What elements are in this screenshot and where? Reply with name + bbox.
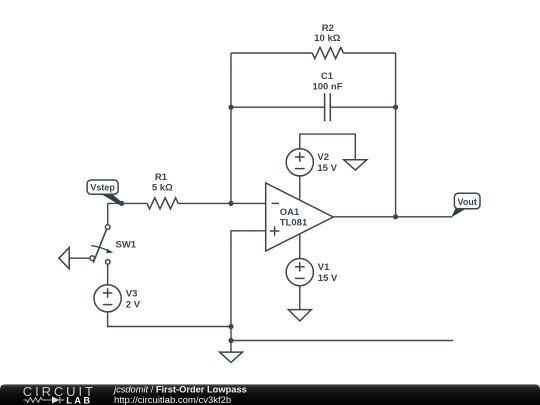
actuation arc — [91, 246, 109, 252]
wire: R2 top-right lead — [343, 52, 395, 54]
svg-text:R1: R1 — [155, 172, 168, 183]
svg-text:jcsdomit / First-Order Lowpass: jcsdomit / First-Order Lowpass — [112, 385, 247, 395]
svg-text:2 V: 2 V — [126, 300, 141, 311]
switch SW1 — [59, 225, 137, 269]
node: junction dot V3 ground tee — [228, 324, 233, 329]
wire: C1 right lead — [330, 106, 395, 108]
voltage source V2 — [286, 149, 313, 176]
svg-text:15 V: 15 V — [317, 163, 337, 174]
node: junction dot feedback tee at inverting input — [228, 201, 233, 206]
wire: op-amp V+ pin up to V2 — [299, 176, 301, 200]
wire: V3 minus to ground bus — [108, 312, 231, 327]
svg-text:V1: V1 — [318, 262, 330, 273]
svg-text:15 V: 15 V — [318, 273, 338, 284]
wire: ground net run to the right — [231, 340, 453, 342]
svg-text:OA1: OA1 — [280, 207, 300, 218]
resistor R1 — [147, 198, 178, 209]
terminal circle left (common) — [90, 256, 95, 261]
svg-text:Vstep: Vstep — [90, 183, 115, 193]
logo diode triangle — [52, 396, 59, 403]
svg-text:V3: V3 — [126, 288, 138, 299]
switch blade — [93, 229, 107, 263]
node: junction dot left C1 tee — [228, 105, 233, 110]
wire: input net Vstep to R1 — [108, 202, 147, 204]
node: junction dot Vstep attach — [119, 201, 124, 206]
wire: common lead from left terminal — [69, 257, 90, 259]
minus input mark — [272, 202, 280, 204]
capacitor C1 — [325, 93, 331, 121]
svg-text:http://circuitlab.com/cv3kf2b: http://circuitlab.com/cv3kf2b — [114, 395, 231, 405]
svg-text:Vout: Vout — [458, 197, 477, 207]
voltage source V3 — [94, 285, 121, 312]
CircuitLab logo wordmark — [23, 384, 96, 405]
resistor R2 — [312, 47, 343, 58]
terminal circle bottom — [106, 260, 111, 265]
arc arrowhead — [106, 249, 113, 253]
ground symbol at V1 — [288, 310, 311, 321]
logo resistor-diode glyph — [24, 397, 65, 404]
wire: non-inverting input to ground vertical — [231, 231, 266, 353]
terminal circle top — [105, 225, 110, 230]
svg-text:V2: V2 — [317, 152, 329, 163]
terminal triangle (open connector) — [59, 248, 69, 269]
wire: V2 plus up and over to its ground — [300, 134, 356, 160]
wire: R2 top-left lead — [231, 52, 312, 54]
node flag Vstep — [87, 180, 123, 205]
node: junction dot right C1 tee — [393, 105, 398, 110]
ground symbol main — [220, 352, 243, 362]
node flag Vout — [451, 193, 480, 217]
credit text — [112, 385, 247, 405]
wire: feedback right vertical — [395, 53, 397, 217]
footer bar — [0, 384, 540, 405]
node: junction dot output feedback tee — [393, 214, 398, 219]
wire: op-amp V- pin down to V1 — [299, 234, 301, 259]
voltage source V1 — [286, 259, 313, 286]
wire: V1 minus down to its ground — [299, 286, 301, 311]
svg-text:TL081: TL081 — [280, 217, 308, 228]
svg-text:10 kΩ: 10 kΩ — [314, 33, 340, 44]
wire: op-amp output to Vout — [333, 216, 452, 218]
wire: C1 left lead — [231, 106, 325, 108]
wire: feedback left vertical — [230, 53, 232, 203]
wire: Vstep node down to switch — [107, 203, 109, 225]
plus input mark — [270, 230, 280, 232]
wire: R1 to op-amp inverting input — [178, 202, 266, 204]
svg-text:100 nF: 100 nF — [312, 81, 342, 92]
svg-text:LAB: LAB — [66, 396, 92, 405]
wire: switch bottom to V3 — [107, 264, 109, 284]
ground symbol at V2 — [344, 160, 367, 170]
svg-text:5 kΩ: 5 kΩ — [152, 183, 173, 194]
node: junction dot right ground run tee — [228, 338, 233, 343]
op-amp OA1 — [266, 183, 334, 251]
svg-text:SW1: SW1 — [116, 240, 137, 251]
